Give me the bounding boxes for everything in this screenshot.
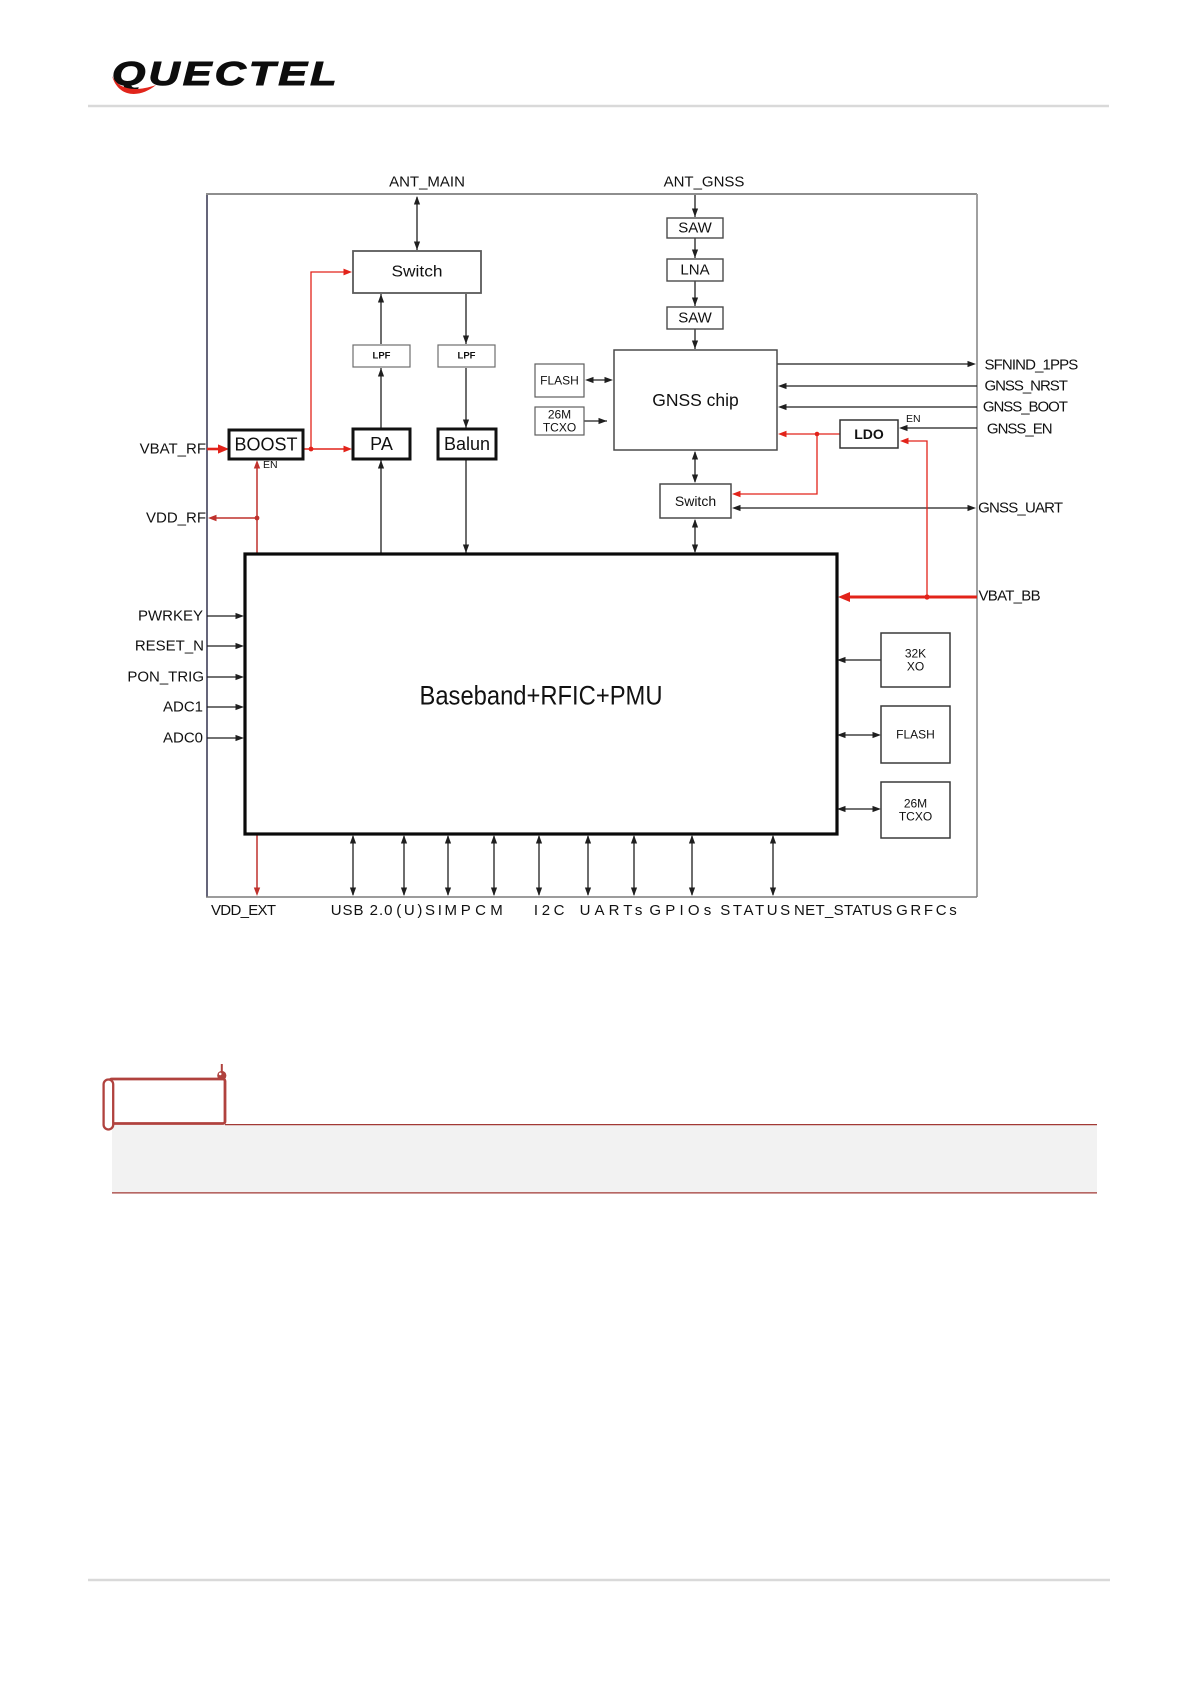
diagram frame bottom edge: [206, 896, 977, 898]
svg-text:XO: XO: [907, 660, 924, 674]
svg-text:26M: 26M: [548, 407, 571, 421]
block 26M TCXO: [881, 782, 950, 838]
svg-text:FLASH: FLASH: [896, 728, 935, 742]
wire LPF to Balun: [465, 368, 467, 428]
wire PCM interface: [447, 836, 449, 895]
wire ANT_GNSS to SAW: [694, 195, 696, 217]
svg-text:GNSS_EN: GNSS_EN: [987, 421, 1053, 438]
svg-text:GNSS chip: GNSS chip: [652, 390, 739, 410]
block TX LPF: [353, 345, 410, 367]
wire VDD_EXT: [256, 834, 258, 890]
wire PON_TRIG: [207, 676, 238, 678]
svg-text:(U)SIM: (U)SIM: [396, 902, 457, 919]
wire VDD_RF: [251, 517, 257, 519]
svg-text:Switch: Switch: [675, 493, 716, 509]
svg-text:GNSS_BOOT: GNSS_BOOT: [983, 399, 1068, 416]
wire GNSS FLASH bus: [589, 379, 609, 381]
svg-text:STATUS: STATUS: [720, 902, 790, 919]
node VBAT_BB junction: [924, 594, 929, 599]
wire UART interface: [538, 836, 540, 895]
svg-text:26M: 26M: [904, 796, 927, 810]
svg-text:Baseband+RFIC+PMU: Baseband+RFIC+PMU: [420, 681, 663, 711]
wire BOOST to antenna Switch supply: [311, 272, 345, 449]
node BOOST output junction: [309, 447, 314, 452]
wire I2C interface: [493, 836, 495, 895]
svg-text:ANT_MAIN: ANT_MAIN: [389, 174, 465, 191]
note band: [112, 1125, 1097, 1193]
svg-text:PCM: PCM: [461, 902, 503, 919]
wire SFNIND_1PPS: [777, 363, 970, 365]
wire Switch to RX LPF: [465, 294, 467, 344]
wire EN to BOOST: [256, 466, 258, 518]
svg-text:UARTs: UARTs: [580, 902, 643, 919]
svg-text:PA: PA: [370, 434, 393, 454]
svg-text:EN: EN: [263, 459, 278, 471]
block PA: [353, 429, 410, 459]
header rule: [88, 105, 1109, 107]
wire RESET_N: [207, 645, 238, 647]
svg-text:FLASH: FLASH: [540, 374, 579, 388]
svg-text:PON_TRIG: PON_TRIG: [127, 669, 204, 686]
diagram frame left edge: [206, 194, 208, 897]
block GNSS chip: [614, 350, 777, 450]
svg-text:VDD_RF: VDD_RF: [146, 510, 206, 527]
wire VBAT_BB to LDO: [906, 441, 927, 597]
node VDD_RF junction: [255, 516, 260, 521]
block GNSS FLASH: [535, 364, 584, 397]
svg-text:QUECTEL: QUECTEL: [112, 56, 340, 93]
wire VBAT_BB: [845, 596, 977, 599]
svg-text:VBAT_RF: VBAT_RF: [140, 441, 206, 458]
svg-text:ADC1: ADC1: [163, 699, 203, 716]
svg-text:GRFCs: GRFCs: [896, 902, 957, 919]
wire ADC0: [207, 737, 238, 739]
wire GNSS chip to GNSS switch: [694, 452, 696, 482]
svg-text:EN: EN: [906, 413, 921, 425]
svg-text:SAW: SAW: [678, 220, 712, 237]
block RX LPF: [438, 345, 495, 367]
wire GRFC interface: [772, 836, 774, 895]
diagram frame top edge: [206, 193, 977, 195]
wire VBAT_RF to BOOST: [207, 448, 222, 451]
wire ADC1: [207, 706, 238, 708]
block GNSS 26M TCXO: [535, 407, 584, 435]
wire PA-LPF to Switch: [380, 294, 382, 344]
svg-text:VDD_EXT: VDD_EXT: [211, 902, 276, 919]
block SAW filter 2: [667, 307, 723, 329]
svg-text:LPF: LPF: [458, 351, 476, 362]
block FLASH: [881, 706, 950, 763]
wire SAW to GNSS chip: [694, 329, 696, 349]
svg-text:NET_STATUS: NET_STATUS: [794, 902, 892, 919]
svg-text:BOOST: BOOST: [234, 435, 297, 455]
wire PA to LPF: [380, 368, 382, 428]
svg-text:GPIOs: GPIOs: [649, 902, 711, 919]
block antenna Switch: [353, 251, 481, 293]
svg-text:PWRKEY: PWRKEY: [138, 608, 203, 625]
node LDO output junction: [815, 432, 820, 437]
svg-text:ADC0: ADC0: [163, 730, 203, 747]
wire STATUS interface: [633, 836, 635, 895]
svg-text:VBAT_BB: VBAT_BB: [979, 588, 1041, 605]
block SAW filter 1: [667, 218, 723, 238]
svg-text:LPF: LPF: [373, 351, 391, 362]
svg-text:ANT_GNSS: ANT_GNSS: [664, 174, 745, 191]
svg-text:LNA: LNA: [680, 262, 709, 279]
svg-text:SFNIND_1PPS: SFNIND_1PPS: [985, 357, 1079, 374]
diagram frame right edge: [976, 194, 978, 897]
wire GNSS TCXO clock: [584, 420, 607, 422]
wire GNSS_BOOT: [784, 406, 977, 408]
wire SAW to LNA: [694, 238, 696, 258]
svg-text:I2C: I2C: [534, 902, 565, 919]
svg-text:GNSS_NRST: GNSS_NRST: [985, 378, 1068, 395]
wire VDD rail to Baseband: [256, 518, 258, 554]
svg-text:LDO: LDO: [854, 426, 884, 442]
wire NET_STATUS interface: [691, 836, 693, 895]
Quectel logo: [112, 56, 340, 94]
wire 26M TCXO to Baseband: [843, 808, 875, 810]
wire ANT_MAIN to Switch: [416, 197, 418, 250]
svg-text:TCXO: TCXO: [899, 810, 932, 824]
block GNSS Switch: [660, 484, 731, 518]
wire Baseband to PA: [380, 460, 382, 553]
wire PWRKEY: [207, 615, 238, 617]
block 32K XO: [881, 633, 950, 687]
wire GNSS_EN to LDO: [905, 427, 977, 429]
svg-text:Switch: Switch: [392, 264, 443, 281]
wire GNSS_UART: [738, 507, 970, 509]
block BOOST: [229, 430, 303, 459]
block Balun: [438, 429, 496, 459]
wire GPIO interface: [587, 836, 589, 895]
wire GNSS_NRST: [784, 385, 977, 387]
svg-text:GNSS_UART: GNSS_UART: [978, 500, 1063, 517]
wire USIM interface: [403, 836, 405, 895]
block LNA: [667, 259, 723, 281]
svg-text:32K: 32K: [905, 646, 926, 660]
footer rule: [88, 1579, 1110, 1581]
block Baseband+RFIC+PMU: [245, 554, 837, 834]
block LDO: [840, 420, 898, 448]
wire LDO to GNSS chip: [784, 433, 840, 435]
wire LNA to SAW: [694, 281, 696, 306]
wire BOOST to PA: [304, 448, 346, 450]
svg-text:RESET_N: RESET_N: [135, 638, 204, 655]
note icon scroll: [104, 1064, 227, 1130]
svg-text:Balun: Balun: [444, 434, 490, 454]
wire FLASH bus: [843, 734, 875, 736]
wire Balun to Baseband: [465, 460, 467, 553]
svg-text:SAW: SAW: [678, 310, 712, 327]
svg-text:USB 2.0: USB 2.0: [331, 902, 393, 919]
svg-text:TCXO: TCXO: [543, 421, 576, 435]
wire LDO rail to GNSS switch: [738, 434, 817, 494]
wire GNSS switch to Baseband: [694, 520, 696, 552]
wire 32K XO to Baseband: [843, 659, 881, 661]
wire USB interface: [352, 836, 354, 895]
